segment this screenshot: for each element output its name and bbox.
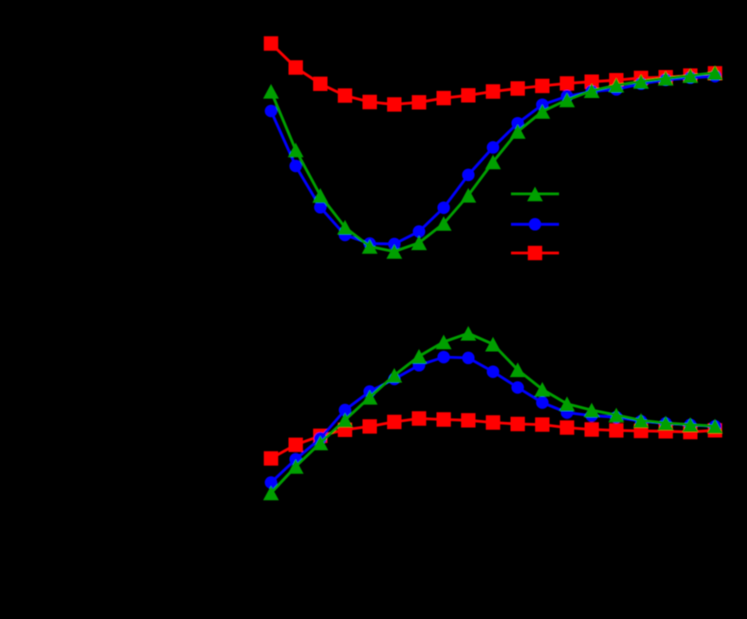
bottom plot: green triangle series line	[271, 333, 715, 493]
top plot: green triangle series line	[271, 73, 715, 252]
top plot: green triangle series markers	[263, 65, 723, 258]
legend entry: blue circle series	[511, 218, 559, 231]
bottom plot: red square series markers	[264, 411, 722, 465]
top plot: blue circle series markers	[265, 70, 722, 250]
top plot: red square series markers	[264, 36, 722, 111]
top plot: red square series line	[271, 44, 715, 105]
legend entry: red square series	[511, 246, 559, 260]
bottom plot: red square series line	[271, 419, 715, 459]
top plot: blue circle series line	[271, 76, 715, 244]
bottom plot: blue circle series markers	[265, 351, 722, 489]
bottom plot: blue circle series line	[271, 357, 715, 482]
bottom plot: green triangle series markers	[263, 326, 723, 500]
legend entry: green triangle series	[511, 187, 559, 202]
